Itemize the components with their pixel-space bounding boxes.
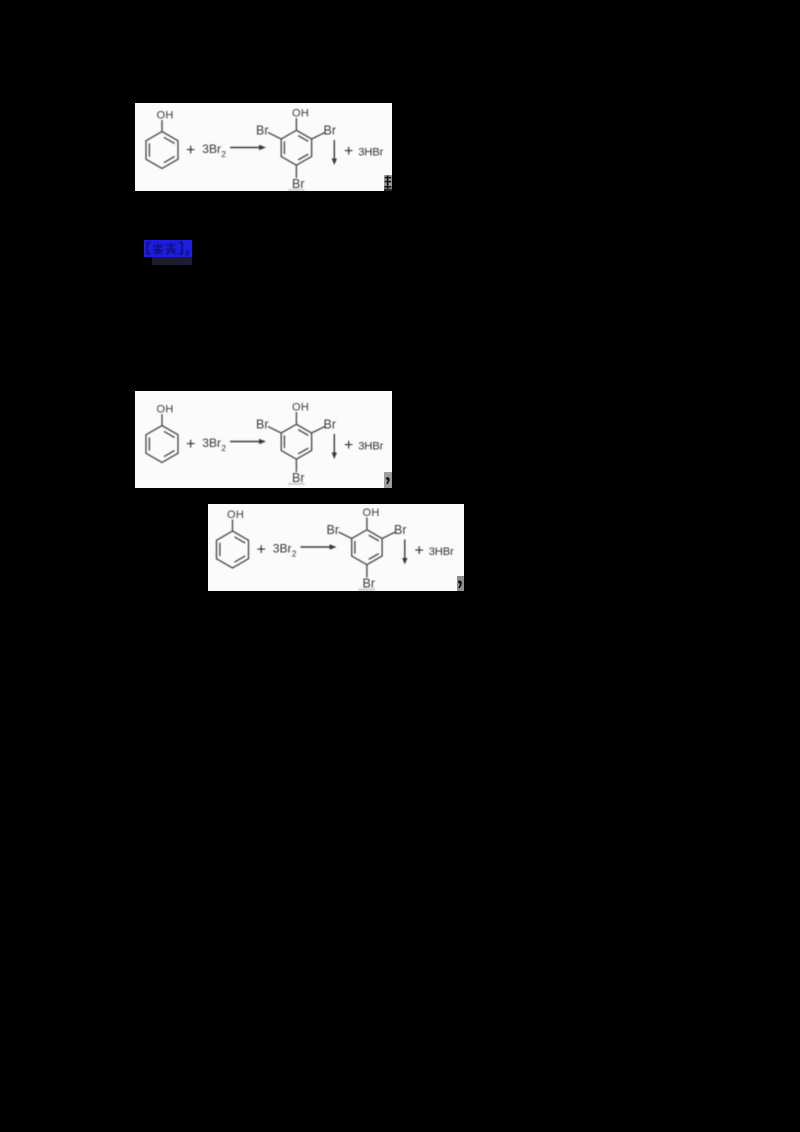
caption bracket left bbox=[148, 243, 151, 255]
caption glyph 1 bbox=[153, 243, 163, 253]
clipped glyph bottom-right of image 1 bbox=[384, 175, 392, 192]
clipped comma bottom-right of image 3 bbox=[457, 576, 464, 591]
clipped comma bottom-right of image 2 bbox=[384, 472, 392, 488]
caption glyph 2 bbox=[166, 243, 176, 255]
reaction scheme image 2 bbox=[135, 391, 392, 488]
reaction scheme image 3 bbox=[208, 504, 464, 591]
reaction scheme image 1 (phenol + 3Br2 -> tribromophenol + 3HBr) bbox=[135, 103, 392, 191]
caption bracket right bbox=[179, 243, 182, 255]
dark navy strip under caption bbox=[152, 257, 192, 265]
caption comma bbox=[186, 251, 188, 256]
blue highlighted caption bbox=[144, 240, 192, 257]
